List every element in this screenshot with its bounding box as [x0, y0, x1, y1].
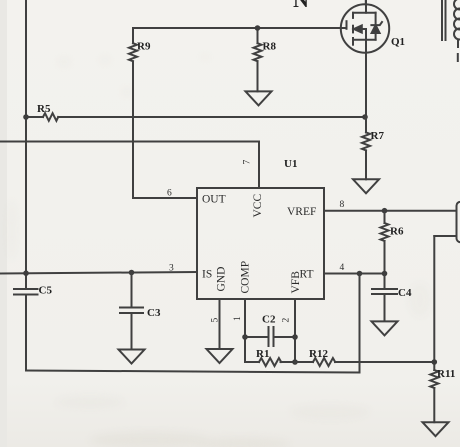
- svg-text:GND: GND: [216, 267, 228, 292]
- node junction R6 / C4: [382, 271, 388, 277]
- op-amp U1 controller IC box: [197, 158, 324, 299]
- svg-text:R11: R11: [437, 368, 455, 380]
- svg-text:R7: R7: [371, 130, 385, 142]
- resistor R11: [430, 368, 455, 422]
- wire RT to bottom rail: [359, 274, 361, 373]
- ground under C4: [372, 321, 398, 335]
- pin number 5: [211, 318, 221, 323]
- svg-text:U1: U1: [284, 158, 297, 170]
- node junction RT / down wire: [357, 271, 363, 277]
- pin number 6: [167, 189, 172, 199]
- wire opto lower lead: [434, 235, 456, 237]
- capacitor C2: [245, 314, 295, 347]
- node junction IS / C3: [129, 270, 135, 276]
- svg-text:OUT: OUT: [202, 194, 226, 206]
- ground under R11: [423, 422, 449, 436]
- resistor R7: [362, 117, 384, 179]
- svg-text:R5: R5: [37, 103, 51, 115]
- capacitor C5: [14, 285, 52, 297]
- svg-text:2: 2: [282, 318, 292, 323]
- capacitor C4: [372, 274, 412, 322]
- node junction VREF / R6: [382, 208, 388, 214]
- svg-text:C4: C4: [398, 287, 412, 299]
- node junction R5 left: [23, 114, 29, 120]
- transistor Q1: [341, 0, 405, 53]
- pin number 3: [169, 264, 174, 274]
- wire Q1 source: [365, 40, 367, 117]
- resistor R6: [381, 211, 404, 274]
- wire pin 3 IS rail y=272: [0, 272, 197, 274]
- resistor R5: [26, 103, 365, 121]
- svg-text:R1: R1: [256, 348, 269, 360]
- node junction Q1 source / R7: [362, 114, 368, 120]
- svg-text:COMP: COMP: [240, 261, 252, 294]
- resistor R8: [254, 28, 277, 91]
- wire R11 rail x=434.3: [433, 236, 435, 370]
- node N label: [293, 0, 309, 12]
- svg-text:N: N: [293, 0, 309, 12]
- wire GND pin 5: [219, 299, 221, 349]
- pin number 8: [340, 200, 345, 210]
- wire left vertical rail x=26: [25, 0, 27, 371]
- resistor R9: [129, 28, 151, 198]
- transformer T1 core: [442, 0, 446, 40]
- svg-text:C3: C3: [147, 307, 161, 319]
- wire COMP pin 1: [244, 299, 246, 362]
- svg-text:7: 7: [243, 160, 253, 165]
- capacitor C3: [120, 273, 161, 350]
- wire VCC rail y=141.5: [0, 142, 259, 189]
- svg-text:IS: IS: [202, 269, 212, 281]
- resistor R12: [295, 348, 434, 366]
- svg-text:4: 4: [340, 263, 345, 273]
- ground under GND pin: [207, 349, 233, 363]
- svg-text:R6: R6: [390, 226, 404, 238]
- wire RT pin 4: [324, 273, 385, 275]
- wire Q1 drain: [365, 0, 367, 5]
- pin number 1: [233, 316, 243, 321]
- transformer T1 winding: [454, 0, 460, 61]
- svg-text:6: 6: [167, 189, 172, 199]
- svg-text:C2: C2: [262, 314, 276, 326]
- wire top rail y=28: [133, 27, 346, 29]
- ground under R8: [246, 91, 272, 105]
- node junction R8 top: [255, 25, 261, 31]
- svg-text:Q1: Q1: [391, 36, 405, 48]
- svg-text:VCC: VCC: [252, 194, 264, 218]
- svg-text:R9: R9: [137, 41, 151, 53]
- svg-text:R8: R8: [263, 41, 277, 53]
- svg-text:C5: C5: [39, 285, 53, 297]
- wire VFB pin 2: [294, 299, 296, 362]
- pin number 7: [243, 160, 253, 165]
- svg-text:RT: RT: [300, 269, 314, 281]
- optocoupler U2 clipped box at right edge: [457, 202, 460, 243]
- ground under R7: [353, 179, 379, 193]
- node junction R1 / VFB: [292, 359, 298, 365]
- resistor R1: [245, 348, 295, 366]
- node junction C2 left: [242, 334, 248, 340]
- node junction R12 / R11: [432, 359, 438, 365]
- pin number 2: [282, 318, 292, 323]
- ground under C3: [119, 350, 145, 364]
- wire pin 6 to OUT: [133, 197, 197, 199]
- svg-text:1: 1: [233, 316, 243, 321]
- node junction IS / C5: [23, 270, 29, 276]
- wire bottom rail: [26, 371, 360, 373]
- node junction C2 right: [292, 334, 298, 340]
- svg-text:8: 8: [340, 200, 345, 210]
- wire VREF pin 8: [324, 210, 457, 212]
- svg-text:R12: R12: [309, 348, 328, 360]
- pin number 4: [340, 263, 345, 273]
- svg-text:VREF: VREF: [287, 206, 316, 218]
